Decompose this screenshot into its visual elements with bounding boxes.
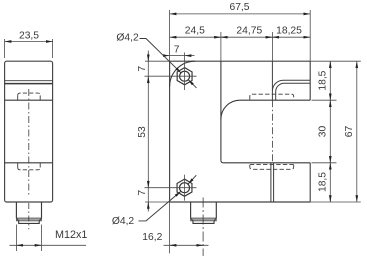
left view gap top surface line	[5, 99, 53, 101]
contour edge above tube	[271, 61, 273, 100]
gap top surface line	[240, 99, 310, 101]
ext bottom edge right	[310, 201, 361, 203]
mounting hole top: hexagon	[177, 68, 192, 85]
svg-text:7: 7	[137, 190, 148, 196]
svg-text:67,5: 67,5	[229, 2, 249, 13]
bracket tube inner line	[276, 83, 311, 100]
front view bottom edge	[170, 201, 311, 203]
dim 23,5	[5, 39, 53, 58]
left view center line	[28, 89, 30, 197]
mounting hole bottom: hexagon	[177, 179, 192, 196]
ext line centerline up	[271, 32, 273, 61]
dim 16,2	[164, 244, 209, 246]
ext line step up	[220, 32, 222, 61]
mounting hole top: SE arrow	[188, 80, 196, 88]
front view top edge	[170, 60, 311, 62]
ext line left edge up	[169, 10, 171, 61]
svg-text:Ø4,2: Ø4,2	[112, 216, 135, 227]
dim 7 top horizontal	[163, 55, 169, 57]
front view right edge upper segment	[309, 61, 311, 100]
ext bottom edge to left	[145, 201, 170, 203]
left view gap bottom surface line	[5, 162, 53, 164]
front face rounded corner arc top-left	[170, 61, 195, 86]
left view hidden recess top (dashed tab)	[17, 95, 19, 100]
left view bracket line lower	[5, 83, 53, 85]
mounting hole bottom: vertical centerline	[184, 175, 186, 201]
svg-text:53: 53	[137, 126, 148, 138]
left view bracket line upper	[5, 80, 53, 82]
dim 67	[356, 61, 358, 202]
svg-text:7: 7	[174, 44, 180, 55]
dim line 7/53/7	[147, 51, 149, 212]
svg-text:18,5: 18,5	[318, 70, 329, 90]
dim chain 24,5 24,75 18,25	[170, 36, 311, 38]
svg-text:7: 7	[137, 66, 148, 72]
ext step1 right	[312, 99, 337, 101]
left view M12 tip	[19, 221, 40, 224]
hidden recess bottom (dashed)	[250, 164, 294, 169]
fork mouth arc	[221, 100, 240, 119]
hidden recess top (dashed)	[250, 94, 294, 99]
left view M12 connector	[16, 202, 41, 219]
ext top edge right	[310, 60, 361, 62]
gap bottom surface line	[223, 162, 310, 164]
front view connector center line	[202, 198, 204, 257]
left view M12 thread chamfer band	[16, 218, 41, 221]
svg-text:24,75: 24,75	[236, 26, 262, 37]
front view left edge	[169, 61, 171, 202]
mounting hole top: horizontal centerline	[145, 75, 197, 77]
mounting hole bottom: NE arrow	[188, 175, 196, 184]
left view hidden recess bottom (dashed tab)	[17, 163, 19, 168]
mounting hole bottom: horizontal centerline	[145, 187, 197, 189]
ext step2 right	[312, 162, 337, 164]
mounting hole top: circle	[180, 71, 190, 81]
mounting hole bottom: circle	[180, 183, 190, 193]
slit right line	[273, 163, 275, 202]
front view M12 thread band	[191, 218, 217, 221]
front view M12 tip	[193, 221, 214, 224]
dim M12x1	[9, 225, 86, 252]
svg-text:67: 67	[344, 126, 355, 138]
dim 67,5	[170, 13, 311, 15]
front view M12 connector	[191, 202, 217, 218]
svg-text:Ø4,2: Ø4,2	[116, 32, 139, 43]
svg-text:30: 30	[318, 126, 329, 138]
left view connector center line	[28, 203, 30, 229]
center line in gap	[271, 100, 273, 163]
ext line right edge up	[309, 10, 311, 61]
svg-text:M12x1: M12x1	[55, 229, 87, 241]
left view body outline	[5, 61, 53, 202]
bracket tube outer line	[272, 80, 310, 91]
mounting hole top: vertical centerline	[184, 53, 186, 91]
label Ø4,2 top with leader	[140, 39, 182, 74]
ext left edge down	[169, 202, 171, 253]
svg-text:23,5: 23,5	[19, 31, 39, 42]
svg-text:24,5: 24,5	[185, 26, 205, 37]
svg-text:18,5: 18,5	[318, 172, 329, 192]
chain dim line right	[329, 61, 331, 202]
ext top edge to left	[145, 60, 170, 62]
front view right edge lower segment	[309, 163, 311, 202]
svg-text:18,25: 18,25	[276, 26, 302, 37]
label Ø4,2 bottom with leader	[139, 191, 181, 221]
inner step vertical contour at 24.5	[220, 61, 222, 160]
inner corner fillet at step bottom	[221, 160, 224, 163]
slit left line	[270, 163, 272, 202]
svg-text:16,2: 16,2	[142, 232, 162, 243]
